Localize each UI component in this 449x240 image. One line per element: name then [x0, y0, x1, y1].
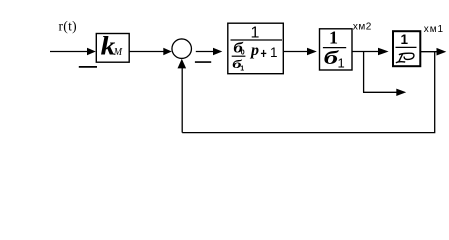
svg-text:1: 1: [329, 28, 338, 48]
svg-text:1: 1: [338, 56, 345, 71]
svg-text:p: p: [249, 42, 259, 59]
svg-text:1: 1: [401, 32, 409, 47]
svg-text:1: 1: [251, 25, 260, 42]
svg-text:1: 1: [240, 65, 244, 72]
svg-text:xм2: xм2: [353, 22, 372, 33]
svg-text:0: 0: [241, 50, 245, 57]
svg-text:1: 1: [270, 45, 278, 60]
svg-text:M: M: [113, 47, 123, 58]
svg-text:r(t): r(t): [59, 19, 77, 34]
svg-text:xм1: xм1: [424, 24, 444, 35]
